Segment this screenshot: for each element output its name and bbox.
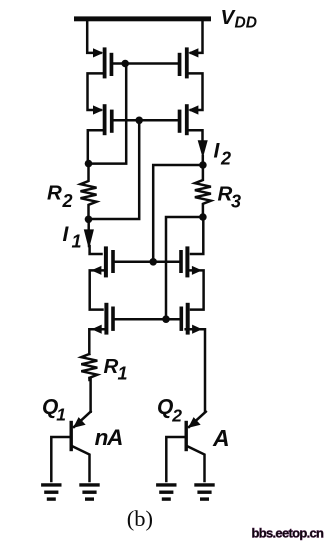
wire rail to M2 source <box>191 21 203 53</box>
transistor M4 channel bar <box>185 104 189 135</box>
svg-text:R: R <box>47 181 62 204</box>
svg-text:2: 2 <box>62 191 73 211</box>
transistor M6 channel bar <box>185 246 189 277</box>
wire row1 gates to node A <box>89 64 127 164</box>
svg-text:2: 2 <box>171 406 182 426</box>
svg-text:2: 2 <box>220 149 231 169</box>
node row4 gates <box>162 315 170 323</box>
transistor M3 source arrow <box>93 106 102 114</box>
gate wire row2 M3-M4 <box>114 119 178 122</box>
svg-text:bbs.eetop.cn: bbs.eetop.cn <box>252 526 325 541</box>
wire M7 source to R1 <box>89 329 104 354</box>
transistor Q2 base lead <box>166 437 184 481</box>
wire M5 source to M7 drain <box>90 270 104 309</box>
wire row2 gates to node B <box>89 120 140 219</box>
transistor M3 channel bar <box>103 104 107 135</box>
transistor Q1 collector <box>73 447 90 482</box>
transistor M7 channel bar <box>104 303 108 335</box>
transistor Q2 emitter <box>189 412 206 427</box>
VDD rail <box>74 16 211 21</box>
current arrow I1 <box>87 219 90 233</box>
svg-text:1: 1 <box>118 364 128 384</box>
gate wire row4 M7-M8 <box>115 318 180 321</box>
transistor M5 channel bar <box>104 246 108 277</box>
wire M2 drain down to M4 <box>189 73 203 110</box>
node B dot <box>85 216 93 224</box>
transistor M2 gate bar <box>178 53 182 76</box>
transistor Q2 base bar <box>185 421 188 451</box>
transistor M2 channel bar <box>185 47 189 78</box>
transistor Q2 collector <box>188 447 205 482</box>
wire M1 drain down to M3 <box>88 73 103 110</box>
transistor M1 channel bar <box>103 47 107 78</box>
transistor M7 gate bar <box>111 307 115 331</box>
wire R1 to Q1 emitter <box>90 378 91 412</box>
transistor Q1 base lead <box>51 437 69 481</box>
transistor M7 source arrow <box>93 325 102 333</box>
resistor R2 <box>81 164 97 219</box>
resistor R3 <box>195 165 211 217</box>
svg-text:I: I <box>63 223 70 246</box>
transistor M8 gate bar <box>180 307 184 331</box>
transistor M5 source arrow <box>92 267 101 275</box>
transistor Q1 base bar <box>70 421 73 451</box>
ground Q1 base <box>43 485 60 499</box>
svg-text:DD: DD <box>235 15 257 32</box>
transistor M3 gate bar <box>110 110 114 133</box>
svg-text:Q: Q <box>157 396 173 419</box>
transistor M6 source arrow <box>192 267 201 275</box>
svg-text:1: 1 <box>56 405 66 425</box>
gate wire row3 M5-M6 <box>115 261 179 264</box>
transistor M1 gate bar <box>110 53 114 76</box>
transistor M1 source arrow <box>93 49 102 57</box>
svg-text:(b): (b) <box>127 506 153 531</box>
transistor M8 source arrow <box>193 325 202 333</box>
wire I1 to M5 drain <box>89 246 102 254</box>
transistor M5 gate bar <box>111 250 115 273</box>
node row1 gates <box>121 60 129 68</box>
node D dot <box>199 213 207 221</box>
transistor M6 gate bar <box>179 250 183 273</box>
wire M6 source to M8 drain <box>189 270 203 309</box>
node A dot <box>85 160 93 168</box>
transistor M4 source arrow <box>189 106 198 114</box>
transistor Q1 emitter <box>74 412 91 427</box>
svg-text:1: 1 <box>72 232 82 252</box>
wire M8 source to Q2 emitter <box>186 329 205 412</box>
wire node D to M6 drain <box>191 217 203 254</box>
svg-text:nA: nA <box>95 425 123 450</box>
transistor M8 channel bar <box>186 303 190 335</box>
ground Q2 base <box>158 485 175 499</box>
transistor M4 gate bar <box>178 110 182 133</box>
wire node C to row3 gates <box>153 165 203 262</box>
svg-text:3: 3 <box>231 191 241 211</box>
wire M4 drain down <box>189 130 203 142</box>
node C dot <box>199 161 207 169</box>
gate wire row1 M1-M2 <box>113 62 177 65</box>
ground Q2 collector <box>196 485 213 499</box>
ground Q1 collector <box>81 485 98 499</box>
svg-text:R: R <box>104 355 119 378</box>
wire M3 drain down to node A <box>88 130 103 163</box>
svg-text:A: A <box>212 425 230 451</box>
node row3 gates <box>149 258 157 266</box>
transistor M2 source arrow <box>189 49 198 57</box>
current arrow I2 <box>198 141 207 157</box>
node row2 gates <box>135 117 143 125</box>
svg-text:I: I <box>214 140 221 163</box>
wire node D to row4 gates <box>166 217 203 319</box>
resistor R1 <box>81 354 97 380</box>
wire rail to M1 source <box>87 21 100 53</box>
